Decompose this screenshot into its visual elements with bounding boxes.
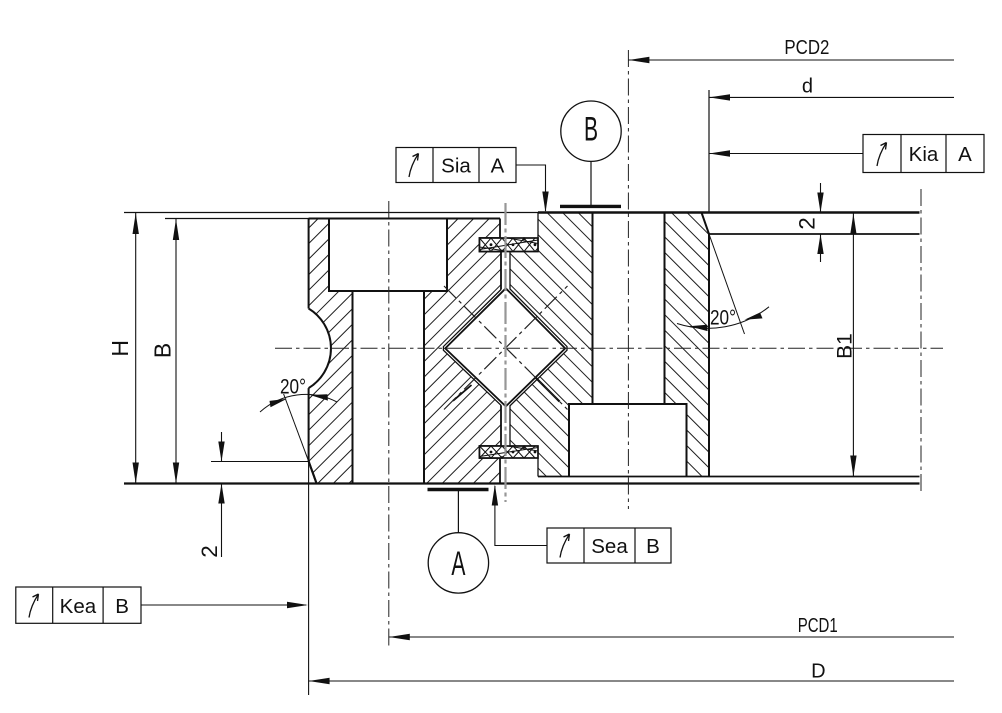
inner ring bolt hole: [593, 213, 665, 405]
main horizontal centerline: [275, 347, 943, 349]
far right centerline: [920, 189, 922, 494]
top surface line: [124, 212, 538, 214]
dimension D: [309, 462, 954, 696]
left angle arrowheads: [270, 399, 288, 407]
outer ring bolt hole: [353, 291, 425, 484]
FCF Kea B: [16, 587, 308, 623]
dimension 2 top right: [795, 183, 824, 262]
svg-text:A: A: [958, 143, 972, 166]
datum A circle: [428, 490, 489, 594]
dimension B: [150, 219, 180, 484]
outer ring hatched section: [309, 219, 501, 484]
svg-text:D: D: [811, 660, 825, 682]
right angle arc: [677, 307, 769, 329]
dimension B1: [834, 214, 857, 477]
svg-text:PCD2: PCD2: [784, 37, 829, 59]
svg-text:B: B: [646, 535, 660, 558]
inner ring bottom line: [538, 476, 920, 478]
svg-text:20°: 20°: [280, 376, 306, 399]
left angle arc: [260, 394, 337, 412]
top seal strip: [480, 237, 539, 252]
left chamfer extension line: [211, 461, 309, 463]
svg-text:Kea: Kea: [60, 595, 97, 618]
left chamfer 20deg construction line: [284, 394, 309, 461]
svg-text:2: 2: [197, 545, 222, 558]
svg-text:H: H: [107, 340, 133, 357]
inner bolt axis centerline: [627, 50, 629, 509]
FCF Sia A: [396, 148, 549, 213]
svg-text:Kia: Kia: [909, 143, 939, 166]
svg-text:20°: 20°: [710, 307, 736, 330]
dimension H: [107, 213, 139, 484]
dimension PCD1: [389, 615, 954, 640]
outer ring outline: [309, 219, 500, 484]
svg-text:Sea: Sea: [591, 535, 628, 558]
inner ring bolt counterbore: [569, 404, 687, 477]
inner ring hatched section: [510, 213, 709, 477]
dimension d: [709, 75, 954, 212]
right angle arrowheads: [689, 325, 708, 331]
roller diagonal axis 1: [444, 286, 568, 410]
outer ring top extension line: [165, 218, 500, 220]
datum B circle: [560, 101, 621, 206]
svg-text:B: B: [584, 109, 598, 147]
svg-text:d: d: [802, 75, 813, 97]
roller diamond: [445, 288, 565, 406]
FCF Kia A: [709, 135, 984, 173]
svg-text:B: B: [150, 343, 176, 358]
outer bolt axis centerline: [388, 201, 390, 649]
svg-text:B: B: [115, 595, 129, 618]
roller axis dark dash lower-left: [453, 385, 472, 401]
left chamfer edge: [309, 461, 317, 483]
svg-text:2: 2: [795, 217, 820, 230]
inner ring outline: [538, 213, 709, 477]
roller diagonal axis 2: [444, 286, 568, 410]
svg-text:Sia: Sia: [441, 155, 471, 178]
svg-text:PCD1: PCD1: [798, 615, 838, 637]
bottom seal strip: [480, 445, 539, 459]
bottom surface line: [124, 482, 920, 484]
dimension PCD2: [628, 37, 954, 63]
FCF Sea B: [492, 485, 671, 564]
roller contact thick segment lower-right: [536, 378, 560, 402]
outer ring bolt counterbore: [329, 219, 447, 292]
right step line 2mm: [709, 233, 920, 235]
right chamfer 20deg construction line: [709, 234, 745, 334]
svg-text:A: A: [451, 544, 465, 582]
svg-text:A: A: [491, 155, 505, 178]
dimension 2 bottom left: [197, 432, 225, 558]
svg-text:B1: B1: [834, 333, 857, 359]
roller axis centerline grey: [504, 203, 506, 502]
